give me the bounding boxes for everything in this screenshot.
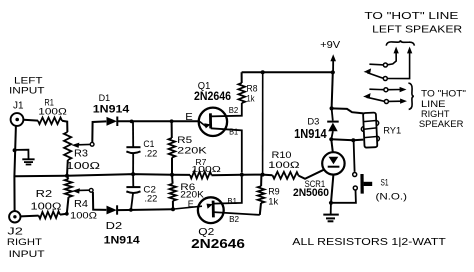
svg-text:TO "HOT" LINE: TO "HOT" LINE — [364, 10, 458, 22]
transistor Q1 — [199, 103, 242, 173]
svg-text:2N2646: 2N2646 — [191, 236, 245, 251]
svg-text:D1: D1 — [99, 93, 111, 103]
svg-text:D2: D2 — [106, 221, 123, 232]
wire — [93, 192, 106, 210]
wire cathode — [331, 175, 333, 203]
svg-text:1N914: 1N914 — [104, 235, 141, 247]
wire gate rail — [212, 174, 273, 177]
svg-text:R4: R4 — [74, 199, 88, 210]
svg-text:(N.O.): (N.O.) — [376, 192, 408, 203]
relay contacts right speaker — [363, 83, 414, 109]
wire — [24, 119, 38, 122]
SCR SCR1 — [322, 152, 344, 174]
capacitor C2 — [126, 174, 140, 210]
svg-text:2N5060: 2N5060 — [293, 187, 329, 199]
svg-text:RY1: RY1 — [383, 125, 401, 136]
svg-text:B2: B2 — [229, 214, 239, 224]
jack J2 — [9, 211, 20, 222]
ground — [17, 150, 35, 165]
transistor Q2 — [174, 177, 260, 224]
wire common rail — [14, 174, 190, 176]
relay coil RY1 — [361, 112, 380, 147]
potentiometer R4 — [65, 176, 93, 214]
wire — [60, 213, 67, 216]
svg-text:1N914: 1N914 — [294, 126, 327, 141]
power +9V — [330, 54, 336, 72]
svg-text:LEFT SPEAKER: LEFT SPEAKER — [372, 24, 462, 36]
svg-text:R2: R2 — [36, 188, 53, 200]
svg-text:R3: R3 — [74, 147, 88, 159]
svg-text:B1: B1 — [229, 127, 238, 136]
svg-text:.22: .22 — [144, 149, 157, 160]
svg-text:100Ω: 100Ω — [191, 164, 221, 174]
wire gate lead — [299, 170, 324, 179]
wire +9V drop — [332, 72, 333, 108]
resistor R6 — [169, 175, 176, 210]
svg-text:2N2646: 2N2646 — [194, 91, 231, 103]
svg-text:100Ω: 100Ω — [268, 160, 300, 171]
wire anode — [331, 139, 333, 152]
ground — [323, 204, 339, 221]
svg-text:E: E — [188, 199, 194, 210]
switch S1 — [333, 140, 372, 203]
wire relay bottom lead — [331, 138, 363, 141]
svg-text:1k: 1k — [247, 93, 255, 104]
resistor R2 — [39, 211, 61, 218]
svg-text:E: E — [185, 112, 193, 123]
svg-text:.22: .22 — [144, 193, 157, 204]
potentiometer R3 — [64, 132, 94, 176]
svg-text:1k: 1k — [268, 197, 278, 208]
resistor R9 — [258, 175, 265, 215]
resistor R10 — [273, 172, 299, 179]
svg-text:+9V: +9V — [320, 39, 340, 51]
svg-text:B1: B1 — [227, 196, 237, 206]
wire B1 node drop — [262, 72, 264, 174]
wire top rail — [242, 71, 333, 73]
svg-text:100Ω: 100Ω — [38, 107, 67, 118]
relay contacts left speaker — [364, 40, 415, 80]
wire — [21, 215, 39, 218]
svg-text:100Ω: 100Ω — [70, 211, 97, 222]
svg-text:C1: C1 — [143, 139, 154, 149]
svg-text:J2: J2 — [7, 226, 23, 238]
diode D3 — [327, 108, 339, 141]
wire — [92, 121, 106, 142]
wire — [117, 208, 173, 211]
resistor R8 — [238, 72, 245, 103]
resistor R7 — [190, 172, 212, 179]
svg-text:INPUT: INPUT — [9, 249, 45, 260]
diode D1 — [107, 117, 118, 127]
wire — [117, 120, 199, 122]
resistor R1 — [38, 118, 62, 125]
svg-text:SPEAKER: SPEAKER — [419, 119, 464, 130]
capacitor C1 — [126, 121, 140, 174]
svg-text:J1: J1 — [13, 101, 24, 112]
resistor R5 — [169, 121, 176, 175]
svg-text:RIGHT: RIGHT — [7, 237, 42, 248]
diode D2 — [107, 205, 118, 214]
svg-text:B2: B2 — [229, 106, 239, 115]
wire relay top lead — [332, 108, 364, 113]
svg-text:220K: 220K — [177, 145, 207, 156]
svg-text:D3: D3 — [307, 117, 319, 127]
svg-text:100Ω: 100Ω — [31, 202, 63, 213]
wire — [14, 126, 16, 211]
svg-text:ALL RESISTORS 1|2-WATT: ALL RESISTORS 1|2-WATT — [292, 237, 446, 248]
svg-text:INPUT: INPUT — [9, 86, 45, 96]
svg-text:S1: S1 — [381, 177, 389, 188]
wire — [62, 121, 67, 132]
svg-text:LEFT: LEFT — [14, 76, 43, 86]
jack J1 — [11, 113, 24, 126]
svg-text:100Ω: 100Ω — [66, 160, 100, 172]
svg-text:1N914: 1N914 — [93, 103, 130, 115]
